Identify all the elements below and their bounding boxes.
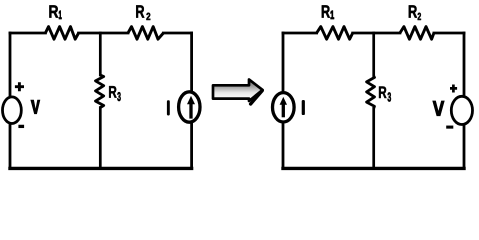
wire: right circuit left rail lower segment	[282, 122, 285, 168]
wire: left circuit right rail lower segment	[190, 122, 193, 168]
minus sign of V source (right circuit)	[446, 126, 453, 129]
minus sign of V source (left circuit)	[18, 125, 24, 128]
voltage source V (left circuit)	[3, 97, 22, 124]
wire: right circuit top rail middle segment	[353, 32, 400, 35]
resistor R1 (left circuit, top rail)	[45, 27, 78, 40]
block arrow head lower edge overshoot	[251, 91, 263, 104]
current source arrow (left circuit, pointing up)	[189, 104, 192, 119]
label R1 subscript 1 (right circuit)	[331, 11, 334, 19]
wire: left circuit top rail left segment (node A to R1)	[10, 32, 45, 35]
label R3 (left circuit)	[109, 86, 116, 98]
resistor R2 (right circuit, top rail)	[400, 27, 434, 40]
plus sign of V source (right circuit)	[450, 85, 457, 93]
wire: left circuit top rail right segment (R2 to top-right corner)	[163, 32, 191, 35]
label V (right circuit)	[432, 101, 444, 117]
resistor R1 (right circuit, top rail)	[317, 27, 353, 40]
label R3 (right circuit)	[379, 86, 386, 98]
label I (left circuit)	[167, 100, 170, 115]
resistor R3 (left circuit, middle branch)	[96, 75, 104, 108]
wire: right circuit top rail left segment	[283, 32, 317, 35]
label R3 subscript 3 (right circuit)	[387, 93, 390, 102]
wire: left circuit left rail lower segment	[9, 124, 12, 168]
wire: right circuit top rail right segment	[434, 32, 464, 35]
voltage source V (right circuit)	[451, 96, 472, 124]
wire: left circuit right rail upper segment	[190, 33, 193, 92]
label R2 subscript 2	[146, 13, 150, 20]
current source I (left circuit)	[179, 92, 200, 122]
wire: right circuit middle branch lower segment	[372, 108, 375, 168]
wire: right circuit left rail upper segment	[282, 33, 285, 92]
block arrow (source transformation)	[213, 80, 263, 102]
wire: right circuit right rail upper segment	[463, 33, 466, 96]
wire: left circuit left rail upper segment	[9, 33, 12, 96]
label R1 (right circuit)	[322, 5, 330, 17]
label R3 subscript 3	[117, 92, 120, 101]
label R2 (left circuit)	[136, 5, 144, 17]
wire: left circuit top rail middle segment (R1 to R2 through node B)	[79, 32, 128, 35]
current source arrow (right circuit, pointing up)	[282, 104, 285, 117]
label I (right circuit)	[302, 100, 305, 115]
wire: left circuit middle branch lower segment (R3 to bottom rail)	[99, 108, 102, 169]
wire: right circuit bottom rail	[283, 167, 464, 170]
label R1 (left circuit)	[49, 5, 58, 17]
wire: right circuit right rail lower segment	[463, 125, 466, 168]
label R1 subscript 1	[59, 11, 62, 19]
wire: right circuit middle branch upper segment	[372, 33, 375, 76]
resistor R3 (right circuit, middle branch)	[367, 76, 375, 108]
label V (left circuit)	[30, 100, 40, 114]
current source I (right circuit)	[273, 93, 295, 122]
label R2 (right circuit)	[409, 5, 417, 17]
label R2 subscript 2 (right circuit)	[418, 13, 421, 20]
plus sign of V source (left circuit)	[15, 82, 24, 91]
wire: left circuit middle branch upper segment (node B down to R3)	[99, 33, 102, 75]
resistor R2 (left circuit, top rail)	[128, 27, 163, 40]
wire: left circuit bottom rail	[10, 167, 192, 170]
